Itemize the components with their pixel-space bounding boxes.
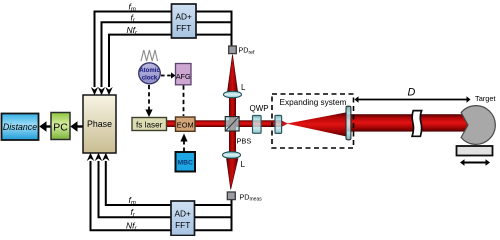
svg-text:Expanding system: Expanding system [280,98,347,107]
svg-text:clock: clock [142,76,158,82]
dashed wire AFG to EOM [183,86,185,117]
arrow into Phase bottom (fr) [95,153,102,161]
arrow into Phase bottom (fm) [102,153,109,161]
vertical beam PBS down to lens [229,130,236,153]
D arrow [358,99,467,101]
stage travel double arrow [464,162,486,164]
svg-text:FFT: FFT [176,23,191,33]
arrow into Phase top (Nfr) [105,87,112,95]
svg-text:fm: fm [129,195,136,207]
arrow into PC [70,121,77,131]
vertical beam PBS up to lens [229,94,236,132]
lens L below PBS [223,152,241,159]
svg-text:Nfr: Nfr [127,25,139,37]
atomic clock ellipse [139,63,161,84]
expanding system dashed box [272,94,354,148]
svg-text:L: L [241,83,246,92]
svg-text:PDref: PDref [239,46,255,56]
svg-text:AD+: AD+ [175,209,192,219]
box AD+FFT bottom [171,201,195,236]
svg-text:PBS: PBS [237,136,252,145]
box EOM [176,117,196,131]
dashed wire Atomic clock to AFG [161,75,172,77]
target pac-man [461,106,495,145]
PDmeas detector [227,192,235,200]
wires AD+FFT top right to PDref [196,11,232,47]
PBS diagonal [226,117,239,130]
QWP waveplate [253,116,262,134]
box Phase [83,95,116,153]
svg-text:Atomic: Atomic [139,68,160,74]
svg-text:fs laser: fs laser [136,120,163,129]
wire PC to Distance [46,125,51,127]
svg-text:L: L [241,160,246,169]
converging beam lens to PDref [227,55,238,94]
expander entrance lens [275,115,282,133]
wire Nfr top [109,35,172,87]
dashed wire MBC to EOM [183,141,185,152]
wire fr bottom [99,161,172,217]
collimated wide beam to target [346,114,469,131]
converging beam lens to PDmeas [227,159,239,190]
box AFG [176,64,192,85]
stage under target [457,146,493,156]
svg-text:AFG: AFG [176,72,191,81]
svg-text:AD+: AD+ [176,12,193,22]
box Distance [2,114,39,141]
wire fm bottom [106,161,171,205]
arrow into Phase top (fm) [91,87,98,95]
svg-text:Distance: Distance [3,122,37,132]
PBS cube [225,117,239,131]
box MBC [176,152,196,172]
expander big lens [346,106,351,140]
arrow into EOM bottom [180,134,187,142]
white lens near target [412,111,422,137]
beam expanding cone to big lens [287,112,348,136]
svg-text:MBC: MBC [177,160,193,167]
svg-text:Target: Target [475,94,496,103]
wire fm top [95,12,172,88]
box AD+FFT top [172,4,197,38]
beam converging into waist after expander entrance lens [281,120,288,127]
beam fs laser to expander (horizontal) [167,120,282,127]
svg-text:D: D [408,87,416,99]
svg-text:Phase: Phase [87,119,112,129]
arrow into Phase top (fr) [98,87,105,95]
box fs laser [132,118,167,131]
wires AD+FFT bottom right to PDmeas [194,199,232,231]
arrow into fs laser [145,110,152,118]
svg-text:EOM: EOM [177,120,194,129]
wire Phase to PC [77,125,84,127]
arrow into Phase bottom (Nfr) [87,153,94,161]
svg-text:QWP: QWP [250,104,269,113]
waveform icon [141,50,158,61]
box PC [51,113,70,140]
svg-text:PC: PC [53,122,68,134]
PDref detector [229,46,237,54]
lens L above PBS [224,91,242,98]
wire fr top [102,22,172,87]
dashed wire Atomic clock to fs laser [148,85,150,110]
svg-text:FFT: FFT [175,220,190,230]
wire Nfr bottom [91,161,172,230]
svg-text:PDmeas: PDmeas [240,192,263,202]
svg-text:fm: fm [129,1,136,13]
arrow into Distance [39,121,46,131]
arrow into AFG [171,72,176,78]
svg-text:Nfr: Nfr [126,220,138,232]
